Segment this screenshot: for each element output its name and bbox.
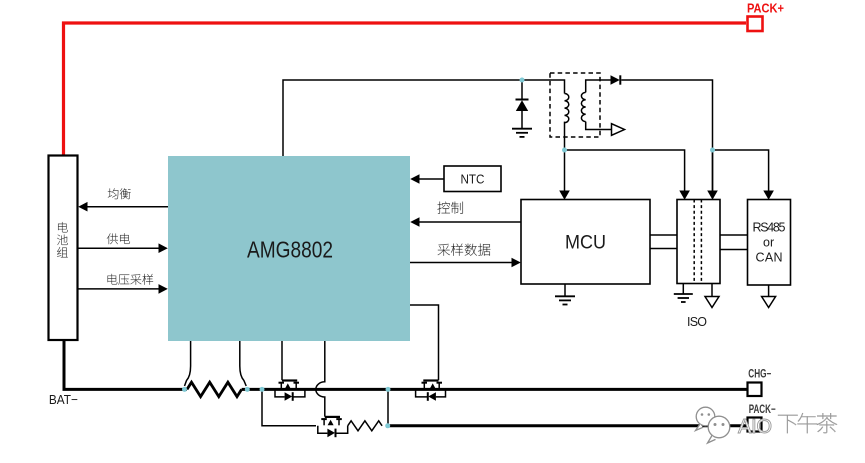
svg-text:or: or: [763, 236, 774, 250]
ground symbol below ISO left: [674, 284, 693, 303]
svg-text:PACK+: PACK+: [747, 2, 784, 16]
terminal PACK-: [748, 418, 762, 432]
node supply junction: [562, 148, 567, 153]
thermistor NTC box: [444, 166, 501, 192]
wire MCU-ISO bus: [650, 235, 677, 249]
wire link between rails: [387, 389, 389, 425]
wire D2 to right vertical: [621, 80, 712, 191]
earth symbol below ISO right: [705, 284, 719, 308]
wire sense line right of shunt: [240, 341, 246, 386]
node lower-branch tap: [260, 387, 265, 392]
wire secondary bottom output: [586, 122, 611, 130]
wire ISO-RS485 bus: [720, 235, 748, 250]
ground symbol below MCU: [555, 284, 575, 305]
watermark text AIOT下午茶: [738, 413, 837, 438]
svg-text:CHG−: CHG−: [748, 369, 771, 381]
wire BAT- thick rail from battery: [64, 340, 187, 389]
wire PACK- thick rail: [388, 424, 747, 427]
terminal CHG-: [748, 383, 762, 397]
wire primary bottom to MCU node: [564, 122, 566, 150]
svg-text:CAN: CAN: [756, 251, 783, 265]
node junction on top wire: [520, 78, 525, 83]
svg-text:PACK−: PACK−: [749, 404, 776, 416]
wire lower branch from tap: [262, 389, 316, 425]
wire secondary top to diode D2: [586, 80, 611, 92]
RS485 or CAN box: [748, 200, 791, 286]
transistor Q1 (discharge MOSFET): [275, 381, 305, 401]
wire 均衡 balance arrow into battery: [78, 188, 168, 211]
node shunt right: [245, 387, 250, 392]
svg-text:RS485: RS485: [753, 221, 786, 235]
wire node to ISO right-top (arrow): [707, 150, 718, 200]
diode D2 rectifier: [611, 75, 621, 84]
wire sense line left of shunt: [185, 341, 191, 386]
earth symbol below RS485: [762, 285, 776, 308]
node isolated supply junction: [710, 148, 715, 153]
transformer T1 secondary winding: [581, 92, 585, 121]
wire gate Q3 from AMG8802 with hop over rail: [316, 341, 325, 417]
wire AMG8802 top to transformer primary: [283, 80, 565, 156]
ground symbol below D1: [512, 129, 532, 137]
resistor pre-charge (small zigzag): [348, 421, 382, 431]
isolator ISO box: [677, 200, 720, 284]
wire 控制 control from MCU to AMG8802: [410, 202, 521, 227]
wire 供电 supply arrow into AMG8802: [78, 233, 168, 253]
node pre-charge join lower: [385, 423, 390, 428]
open arrow secondary output: [612, 124, 625, 136]
svg-text:AIO: AIO: [738, 416, 772, 438]
wire gate Q2 from AMG8802 right side: [410, 305, 439, 380]
watermark wechat logo: [696, 407, 730, 443]
svg-text:MCU: MCU: [565, 232, 606, 254]
diode D1 (TVS to ground): [516, 80, 529, 128]
wire gate Q1 from AMG8802: [281, 341, 283, 380]
IC AMG8802 main box: [168, 156, 410, 341]
terminal PACK+: [748, 17, 763, 32]
node pre-charge join on rail: [386, 387, 391, 392]
svg-text:NTC: NTC: [461, 173, 485, 187]
wire node to ISO left-top (arrow): [565, 150, 690, 200]
transformer T1 primary winding: [565, 94, 569, 123]
wire 采样数据 sample-data from AMG8802 to MCU: [410, 244, 521, 268]
transistor Q3 (pre-charge MOSFET): [318, 417, 348, 437]
resistor shunt (thick zigzag): [187, 382, 242, 396]
svg-text:ISO: ISO: [687, 315, 707, 329]
wire PACK+ net (red): [64, 23, 747, 156]
wire 电压采样 voltage-sampling arrow into AMG8802: [78, 274, 168, 294]
wire node to RS485 top (arrow): [713, 150, 774, 200]
transistor Q2 (charge MOSFET): [416, 381, 446, 401]
MCU box: [521, 200, 650, 285]
svg-text:BAT−: BAT−: [49, 392, 78, 407]
node shunt left: [182, 387, 187, 392]
wire NTC to AMG8802: [410, 174, 444, 184]
battery pack box 电池组: [49, 156, 78, 341]
svg-text:AMG8802: AMG8802: [247, 237, 333, 263]
transformer T1 dashed enclosure: [550, 73, 600, 137]
wire node to MCU top (arrow): [559, 150, 570, 200]
wire BAT- rail continues to CHG-: [242, 388, 747, 391]
